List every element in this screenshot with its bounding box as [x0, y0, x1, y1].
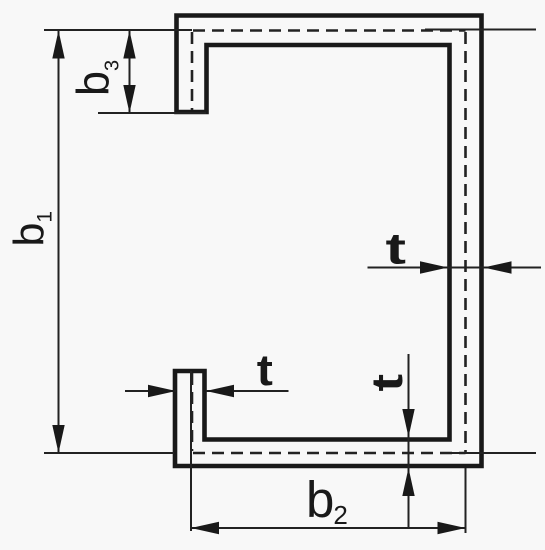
centerline web (dashed) — [464, 32, 467, 452]
arrowhead t lip left-pointing — [206, 385, 234, 397]
dimension line b2 — [191, 527, 466, 529]
extension line b1 bottom left — [44, 452, 174, 454]
dimension line t bottom flange — [408, 354, 410, 528]
dimension line b3 — [129, 31, 131, 114]
C-channel profile outline — [175, 16, 482, 467]
arrowhead t web right — [420, 261, 448, 273]
svg-text:t: t — [363, 374, 412, 392]
arrowhead t web left — [484, 261, 512, 273]
arrowhead b2 left — [191, 522, 219, 534]
extension line b1 bottom right — [440, 452, 536, 454]
centerline bottom lip (dashed) — [191, 373, 194, 451]
arrowhead t flange down — [402, 409, 414, 437]
extension line b1 top right — [425, 29, 536, 31]
dimension line t lip left — [125, 390, 176, 392]
centerline bottom flange (dashed) — [193, 452, 466, 455]
arrowhead b3 down — [123, 85, 135, 113]
arrowhead t lip right-pointing — [148, 385, 176, 397]
svg-text:t: t — [257, 345, 273, 394]
centerline top lip (dashed) — [191, 32, 194, 110]
centerline top flange (dashed) — [193, 29, 466, 32]
svg-text:t: t — [386, 225, 407, 273]
arrowhead b1 down — [52, 425, 64, 453]
arrowhead b2 right — [438, 522, 466, 534]
dimension line t web — [368, 267, 542, 269]
dimension line b1 — [58, 31, 60, 454]
extension line b2 right — [465, 468, 467, 533]
dimension line t lip right — [206, 390, 289, 392]
extension line b3 bottom — [98, 112, 206, 114]
extension line b2 left — [190, 371, 192, 531]
arrowhead b1 up — [52, 31, 64, 59]
extension line b1 top left — [44, 29, 192, 31]
arrowhead t flange up — [402, 468, 414, 496]
arrowhead b3 up — [123, 31, 135, 59]
